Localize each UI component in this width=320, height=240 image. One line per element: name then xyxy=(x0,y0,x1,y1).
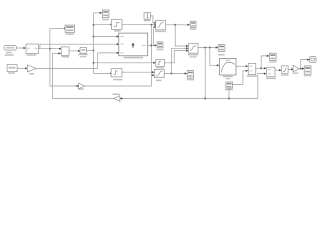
wire to U2 xyxy=(94,24,111,26)
wire distribution vertical x=93.5 xyxy=(93,13,95,74)
wire to integrator W xyxy=(94,62,154,64)
wire branch into saturation in2 xyxy=(151,74,152,76)
wire M out to N in1 with junction to scope O xyxy=(256,67,264,69)
label P xyxy=(281,74,289,76)
block M (2 inputs) xyxy=(248,63,256,74)
wire saturation out to scope L with junction riser to D in2 xyxy=(164,73,185,75)
label plot line1 xyxy=(223,76,233,78)
port text In2 xyxy=(120,44,123,45)
node junction x=205.2 xyxy=(204,47,206,49)
label M xyxy=(247,75,257,77)
node junction to integrator W xyxy=(93,62,95,64)
label W xyxy=(156,67,165,68)
label scope R xyxy=(304,75,312,76)
scope2 xyxy=(102,10,109,18)
label scope L xyxy=(187,79,195,81)
wire H out to junction and J in1 xyxy=(39,48,60,50)
label Signal1 line2 xyxy=(5,54,14,56)
label J xyxy=(62,56,69,58)
label G line2 xyxy=(80,56,87,57)
gain Q xyxy=(293,65,299,72)
scope R xyxy=(304,66,311,74)
wire D out to T with two junctions xyxy=(198,47,216,49)
wire big block out to scope V xyxy=(148,44,155,46)
wire J riser x=52.4 to bus2 and J in2 xyxy=(52,52,58,54)
node junction on bus2 xyxy=(204,98,206,100)
wire up to scope O xyxy=(261,56,267,68)
wire S1 output to subsystem H xyxy=(17,47,24,49)
saturation block xyxy=(154,69,164,77)
wire riser to D in2 xyxy=(171,48,186,73)
wire drop x=205.2 to bus2 xyxy=(204,48,206,99)
wire to scope2 xyxy=(94,12,100,14)
label scope2 xyxy=(102,19,109,21)
label U2 xyxy=(114,30,121,32)
constant block 1 xyxy=(144,13,150,20)
wire J out to G xyxy=(69,50,78,52)
bus2 horizontal xyxy=(52,98,257,100)
node H-out junction xyxy=(49,48,51,50)
wire P out to gain Q xyxy=(288,68,291,70)
port text Out1 xyxy=(142,45,146,46)
block G xyxy=(80,48,87,54)
label scope O xyxy=(269,61,276,62)
label plot line2 xyxy=(225,78,230,79)
label constant 1 xyxy=(144,20,150,21)
label gain1 xyxy=(29,73,34,75)
wire K out to M in2 xyxy=(232,71,246,85)
wire bus2 right end riser to N in2 xyxy=(258,74,264,99)
wire drop x=209.8 to plot block input xyxy=(210,48,217,66)
label F xyxy=(113,79,123,81)
scope L xyxy=(187,71,193,79)
subsystem H xyxy=(26,44,39,54)
label scope T xyxy=(218,54,225,56)
wire constant to A in1 xyxy=(150,16,154,23)
wire riser to display S2 xyxy=(301,60,308,69)
label A xyxy=(155,31,166,32)
wire to big block In1 xyxy=(94,36,117,38)
block P xyxy=(282,66,289,73)
integrator block W xyxy=(156,59,165,66)
wire F out to saturation in1 xyxy=(122,71,152,73)
wire corner to block F xyxy=(94,72,111,74)
label constant 2 xyxy=(8,72,15,74)
wire gain1 out to riser x=97.7 into big block In3 xyxy=(36,53,117,69)
node junction to big block In1 xyxy=(93,36,95,38)
node G junction xyxy=(93,49,95,51)
wire long vertical x=151.4 down to bus1 xyxy=(150,25,152,86)
label big block xyxy=(124,57,144,59)
block N (2 inputs) xyxy=(267,67,275,77)
node junction x=301.6 xyxy=(300,68,302,70)
scope O xyxy=(270,53,277,60)
block U2 (step icon) xyxy=(111,20,122,30)
big subsystem block xyxy=(119,33,148,56)
wire A out to B with junction xyxy=(166,24,188,26)
node junction to U2 xyxy=(93,24,95,26)
label scope V xyxy=(157,49,164,50)
node junction at x=175.2 xyxy=(174,24,176,26)
node junction bus2 at K xyxy=(228,98,230,100)
label scope B xyxy=(190,28,197,30)
label bus1 gain xyxy=(78,88,84,90)
wire riser from big-out net to A in3 xyxy=(153,27,154,46)
wire U2 out long run to block A xyxy=(122,24,155,26)
label gain Q xyxy=(292,72,298,74)
constant block 2 xyxy=(7,65,17,72)
gain on bus1 (right pointing) xyxy=(79,83,85,89)
node junction x=209.8 xyxy=(209,47,211,49)
label D line1 xyxy=(188,54,199,56)
label bus2 gain above xyxy=(112,94,119,96)
label scope1 xyxy=(66,33,74,35)
wire constant2 to gain1 xyxy=(17,67,25,69)
block F xyxy=(111,69,122,77)
block D (3 inputs) xyxy=(188,43,198,53)
scope V xyxy=(157,42,163,48)
node junction x=261.2 xyxy=(260,67,262,69)
scope B xyxy=(190,21,196,27)
wire N out to P xyxy=(275,69,279,71)
label D line2 xyxy=(190,56,197,57)
wire drop to D in1 xyxy=(175,25,186,46)
display S2 xyxy=(310,57,316,63)
port text In1 xyxy=(120,36,123,37)
label N xyxy=(266,78,276,80)
icon colored center xyxy=(132,43,133,46)
node junction at x=151.4 on U2 wire xyxy=(150,24,152,26)
gain on bus2 (left pointing) xyxy=(114,96,120,102)
label saturation xyxy=(156,80,162,82)
plot block with curve xyxy=(220,58,236,75)
wire bus2 riser into K bottom xyxy=(228,88,230,99)
block J (two-input) xyxy=(61,47,69,55)
source block Signal1 xyxy=(4,45,17,50)
label subsystem H xyxy=(27,54,37,56)
wire Q out to scope R with junction riser to S2 xyxy=(299,68,302,70)
wire W out riser to D in3 xyxy=(164,51,186,63)
label G line1 xyxy=(78,54,87,56)
scope1 xyxy=(65,25,75,32)
block A switch xyxy=(156,20,166,29)
scope T xyxy=(218,45,225,52)
wire G out to net x=93.5 xyxy=(87,49,94,51)
node junction sat out xyxy=(170,73,172,75)
scope K xyxy=(226,82,233,88)
label Signal1 line1 xyxy=(6,52,12,54)
node junction big out at riser xyxy=(150,44,152,46)
label scope K xyxy=(225,89,233,91)
wire plot out to M in1 xyxy=(236,65,246,67)
gain1 triangle xyxy=(27,65,36,72)
port text In3 xyxy=(120,52,123,53)
wire branch down x=49.9 to bus1 and up to Scope1 xyxy=(50,28,151,86)
wire H out up-jog to big block In2 xyxy=(39,44,117,49)
